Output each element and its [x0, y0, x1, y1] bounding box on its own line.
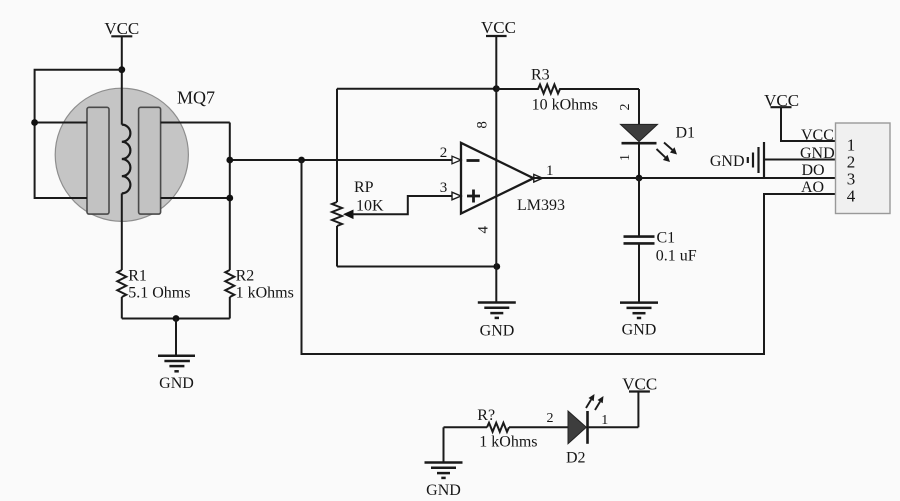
svg-text:GND: GND [426, 482, 461, 499]
wire wiper to pin 3 [353, 196, 462, 214]
LED D2 light arrow a [586, 394, 595, 408]
ground under C1 [620, 303, 658, 318]
wire right plate top [161, 122, 230, 124]
power flag VCC top-left [104, 19, 139, 38]
svg-text:MQ7: MQ7 [177, 88, 215, 108]
ground under op-amp [478, 303, 516, 318]
ground tap near connector [748, 142, 764, 178]
junction top feedback [493, 85, 500, 92]
resistor R2 zigzag [225, 270, 234, 297]
capacitor C1 bottom lead [638, 243, 640, 302]
wire GND to R? [444, 426, 488, 428]
wire bottom GND stem [443, 427, 445, 462]
wire coil to R1 [121, 193, 123, 270]
wire D1 to DO line [638, 143, 640, 178]
svg-text:GND: GND [800, 145, 835, 162]
wire AO feedback loop [302, 160, 836, 354]
wire right vertical to R2 [229, 123, 231, 271]
potentiometer RP zigzag [332, 202, 342, 226]
svg-text:10 kOhms: 10 kOhms [532, 97, 598, 114]
svg-text:R?: R? [477, 407, 495, 424]
wire D2 to VCC [589, 426, 639, 428]
wire right plate bottom [161, 197, 230, 199]
wire VCC to R3 node [495, 36, 497, 89]
wire R2 to ground rail [229, 297, 231, 319]
svg-text:8: 8 [475, 121, 491, 129]
svg-text:D1: D1 [676, 125, 696, 142]
junction at VCC branch [118, 66, 125, 73]
wire R1 to ground rail [121, 297, 123, 319]
heater coil of MQ7 [122, 125, 131, 194]
svg-text:2: 2 [547, 411, 554, 426]
svg-text:2: 2 [618, 104, 633, 111]
capacitor C1 plates [624, 237, 655, 244]
op-amp power pin line 8/4 [495, 89, 497, 303]
LED D1 triangle [621, 124, 658, 141]
junction AO tap [298, 157, 305, 164]
op-amp minus symbol [467, 159, 480, 162]
MQ7 electrode plate left [87, 107, 109, 214]
junction left branch [31, 119, 38, 126]
wire bottom feedback [337, 266, 497, 268]
LED D2 cathode bar [586, 411, 589, 444]
junction right plate bottom [226, 195, 233, 202]
svg-text:4: 4 [475, 225, 491, 233]
LED D1 light arrow a [664, 143, 677, 155]
junction bottom feedback [493, 263, 500, 270]
svg-text:DO: DO [802, 162, 825, 179]
svg-text:R3: R3 [531, 67, 550, 84]
junction D1/C1 on DO line [636, 175, 643, 182]
op-amp plus symbol [467, 190, 480, 203]
svg-text:VCC: VCC [104, 19, 139, 38]
connector J1 body [836, 123, 891, 214]
wire sensor output to op-amp pin 2 [230, 159, 461, 161]
wire VCC flag down to heater coil [121, 36, 123, 124]
op-amp U1 LM393 triangle [461, 143, 534, 214]
input arrow pin 2 [452, 156, 461, 164]
svg-text:GND: GND [159, 375, 194, 392]
svg-text:GND: GND [622, 322, 657, 339]
svg-text:1 kOhms: 1 kOhms [479, 434, 537, 451]
svg-text:R1: R1 [128, 268, 147, 285]
svg-text:D2: D2 [566, 450, 586, 467]
resistor R1 zigzag [117, 270, 126, 297]
wire left branch to plates [35, 70, 122, 198]
LED D2 light arrow b [595, 396, 604, 410]
svg-text:GND: GND [480, 323, 515, 340]
svg-text:5.1 Ohms: 5.1 Ohms [128, 285, 190, 302]
sensor MQ7 body [55, 88, 188, 221]
svg-text:C1: C1 [657, 230, 676, 247]
MQ7 electrode plate right [139, 107, 161, 214]
wire top feedback [337, 88, 496, 90]
svg-text:0.1 uF: 0.1 uF [656, 248, 697, 265]
capacitor C1 top lead [638, 178, 640, 237]
svg-text:RP: RP [354, 179, 374, 196]
wire R3 to LED D1 [638, 89, 640, 124]
wire DO output line [534, 177, 836, 179]
ground flag bottom indicator [425, 463, 463, 478]
svg-text:1 kOhms: 1 kOhms [236, 285, 294, 302]
ground under R1 R2 [158, 356, 195, 372]
RP wiper arrow [343, 210, 354, 220]
power flag VCC bottom [622, 375, 657, 394]
wire bottom rail R1-R2 [122, 318, 230, 320]
svg-text:2: 2 [440, 145, 448, 161]
output arrow pin 1 [534, 174, 543, 182]
resistor R? zigzag [487, 423, 509, 432]
wire left branch upper tap [35, 122, 87, 124]
svg-text:R2: R2 [236, 268, 255, 285]
svg-text:10K: 10K [356, 198, 384, 215]
svg-text:4: 4 [847, 187, 856, 206]
power flag VCC mid [481, 18, 516, 37]
svg-text:3: 3 [440, 180, 448, 196]
power flag VCC right [764, 91, 799, 110]
wire VCC right to connector [781, 107, 836, 141]
svg-text:VCC: VCC [481, 18, 516, 37]
LED D1 cathode bar [622, 142, 657, 145]
svg-text:VCC: VCC [801, 127, 834, 144]
svg-text:LM393: LM393 [517, 197, 565, 214]
svg-text:1: 1 [601, 413, 608, 428]
input arrow pin 3 [452, 192, 461, 200]
wire RP bottom [336, 226, 338, 267]
wire RP branch top [336, 89, 338, 202]
LED D1 light arrow b [657, 149, 671, 162]
wire R? to D2 [509, 426, 568, 428]
svg-text:GND: GND [710, 153, 745, 170]
junction ground rail [173, 315, 180, 322]
svg-text:1: 1 [618, 154, 633, 161]
resistor R3 [496, 85, 639, 94]
svg-text:1: 1 [546, 163, 554, 179]
wire ground stem [175, 319, 177, 356]
wire VCC bottom stem [637, 392, 639, 428]
wire GND tap to connector [765, 159, 836, 161]
LED D2 triangle [568, 411, 586, 444]
svg-text:AO: AO [801, 179, 824, 196]
junction sensor output [226, 157, 233, 164]
